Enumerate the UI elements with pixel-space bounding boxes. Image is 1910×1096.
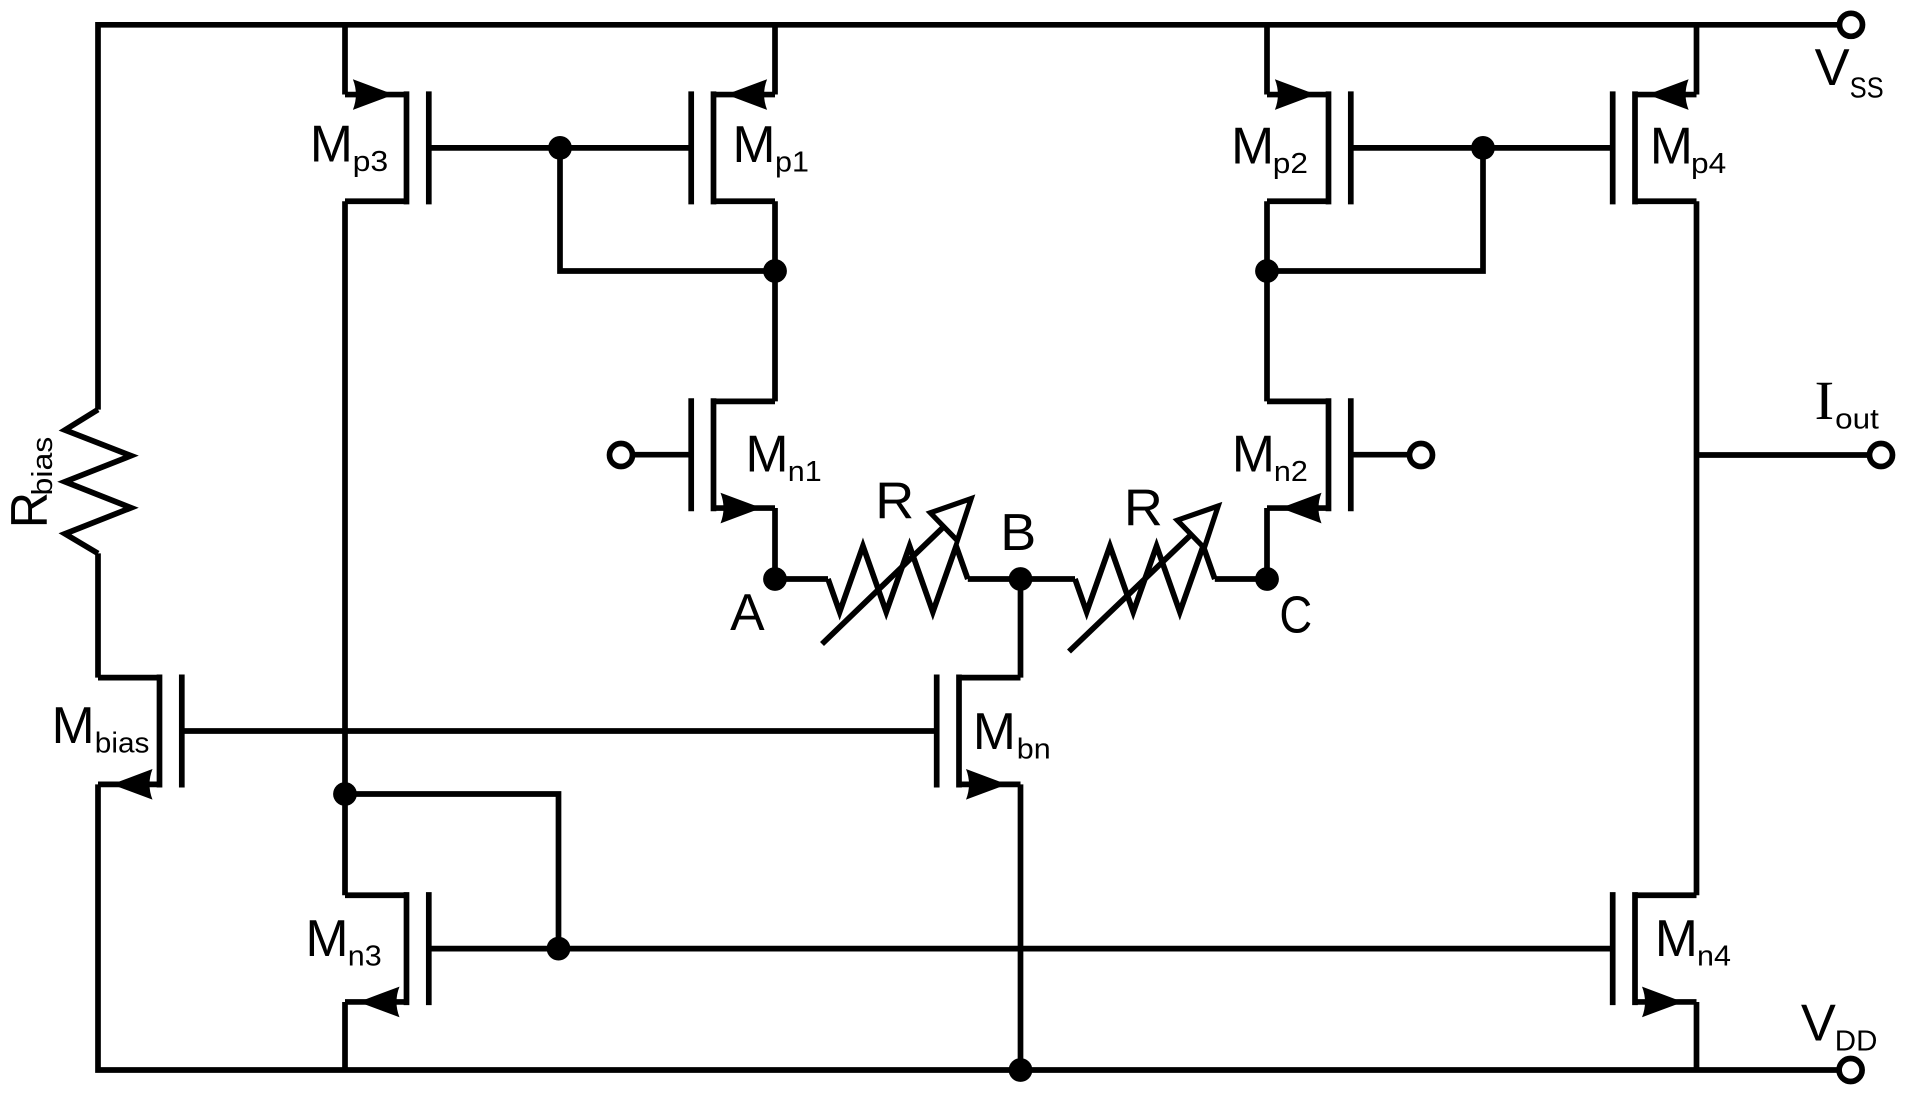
junction Mp2 drain node: [1255, 259, 1279, 283]
wire Mp3-Mp1 gate wire: [429, 145, 692, 151]
wire Mp2-Mp4 gate wire: [1351, 145, 1613, 151]
svg-text:R: R: [0, 492, 58, 528]
svg-text:M: M: [1655, 909, 1698, 967]
wire Mn3-Mn4 gate wire: [429, 946, 1613, 952]
wire Mp3 drain down to Mn3 drain: [342, 201, 348, 895]
wire V_DD bottom rail and Mbias drain wire: [98, 784, 1837, 1070]
svg-text:SS: SS: [1850, 73, 1884, 105]
svg-text:out: out: [1835, 404, 1879, 436]
transistor Mn1 (NMOS): [691, 398, 775, 523]
svg-text:V: V: [1815, 38, 1851, 96]
wire resistor R1 to node B to resistor R2: [968, 576, 1075, 582]
label node C: [1279, 586, 1312, 644]
wire Mbias-Mbn gate wire: [182, 728, 937, 734]
wire Mbn source to bottom rail: [1018, 784, 1024, 1070]
svg-text:M: M: [1231, 117, 1274, 175]
label Mp2: [1231, 117, 1308, 181]
transistor Mn4 (NMOS): [1613, 892, 1697, 1017]
label Mp1: [733, 115, 809, 179]
transistor Mn3 (NMOS): [345, 892, 429, 1017]
resistor R (variable, between B and C) zigzag: [1075, 546, 1215, 612]
svg-text:M: M: [52, 696, 95, 754]
label Mn4: [1655, 909, 1731, 973]
node B junction dot: [1009, 567, 1033, 591]
label R of variable resistor R1: [875, 471, 914, 529]
label V_SS supply: [1815, 38, 1884, 105]
label Mp4: [1650, 117, 1726, 181]
svg-text:M: M: [306, 909, 349, 967]
svg-text:A: A: [730, 583, 765, 641]
wire left wire below Rbias to Mbias source: [95, 553, 101, 677]
label I_out output current: [1815, 371, 1879, 436]
label R of variable resistor R2: [1124, 479, 1163, 537]
wire Mn1 gate lead to terminal: [633, 452, 692, 458]
svg-text:bias: bias: [95, 727, 150, 759]
svg-text:M: M: [1232, 425, 1275, 483]
transistor Mp4 (PMOS): [1613, 79, 1697, 204]
wire Iout output lead: [1697, 452, 1870, 458]
svg-text:V: V: [1801, 993, 1837, 1051]
wire gate node to Mp2 drain (diode connection): [1267, 148, 1483, 271]
svg-text:R: R: [875, 471, 914, 529]
wire Mn3 source to bottom rail: [342, 1002, 348, 1070]
wire Mn2 source down to node C: [1264, 508, 1270, 579]
transistor Mp3 (PMOS): [345, 79, 429, 204]
label node A: [730, 583, 765, 641]
wire Mn4 source to bottom rail: [1694, 1002, 1700, 1070]
terminal I_out: [1870, 444, 1893, 467]
variable resistor R1 adjustment arrow: [822, 499, 971, 644]
terminal Mn2 gate input: [1410, 444, 1433, 467]
transistor Mbn (NMOS): [937, 675, 1021, 800]
wire Mp1 source drop from top rail: [772, 25, 778, 95]
label node B: [1000, 503, 1036, 561]
resistor R (variable, between A and B) zigzag: [828, 546, 968, 612]
svg-text:bias: bias: [27, 437, 59, 496]
junction on Mp3 drain column: [333, 782, 357, 806]
wire Mp2 drain down to Mn2 drain: [1264, 201, 1270, 401]
label Rbias (rotated): [0, 437, 59, 529]
svg-text:M: M: [746, 425, 789, 483]
wire Mp4 drain down to Mn4 drain: [1694, 201, 1700, 895]
svg-text:M: M: [310, 115, 353, 173]
wire gate node to Mp1 drain (diode connection): [560, 148, 775, 271]
wire Mp2 source drop from top rail: [1264, 25, 1270, 95]
junction Mbn source at bottom rail: [1009, 1058, 1033, 1082]
wire Mp3 drain branch to bottom gate net: [345, 794, 559, 949]
transistor Mn2 (NMOS): [1267, 398, 1351, 523]
junction Mp2/Mp4 gate node: [1471, 136, 1495, 160]
svg-text:n1: n1: [788, 456, 822, 488]
terminal Mn1 gate input: [610, 444, 633, 467]
svg-text:n2: n2: [1274, 456, 1308, 488]
label Mn3: [306, 909, 382, 973]
svg-text:B: B: [1000, 503, 1036, 561]
variable resistor R2 adjustment arrow: [1069, 506, 1218, 652]
label Mn1: [746, 425, 822, 489]
resistor Rbias zigzag: [65, 410, 131, 554]
label Mbias: [52, 696, 150, 760]
svg-text:M: M: [973, 702, 1016, 760]
transistor Mbias (NMOS): [98, 675, 182, 800]
svg-text:n3: n3: [348, 941, 382, 973]
label Mbn: [973, 702, 1051, 766]
transistor Mp1 (PMOS): [691, 79, 775, 204]
label Mn2: [1232, 425, 1308, 489]
wire V_SS top rail and left supply wire: [98, 25, 1838, 410]
wire node A to resistor R1: [775, 576, 828, 582]
svg-text:DD: DD: [1835, 1025, 1878, 1057]
junction Mp1 drain node: [763, 259, 787, 283]
svg-text:p1: p1: [775, 147, 809, 179]
node C junction dot: [1255, 567, 1279, 591]
junction Mp3/Mp1 gate node: [548, 136, 572, 160]
svg-text:I: I: [1815, 371, 1835, 432]
label V_DD supply: [1801, 993, 1878, 1057]
terminal V_DD: [1839, 1059, 1862, 1082]
svg-text:R: R: [1124, 479, 1163, 537]
svg-text:M: M: [733, 115, 776, 173]
wire resistor R2 to node C: [1215, 576, 1267, 582]
svg-text:p4: p4: [1691, 148, 1726, 180]
svg-text:C: C: [1279, 586, 1312, 644]
label Mp3: [310, 115, 388, 179]
svg-text:M: M: [1650, 117, 1693, 175]
svg-text:p3: p3: [353, 146, 389, 178]
transistor Mp2 (PMOS): [1267, 79, 1351, 204]
svg-text:p2: p2: [1273, 148, 1308, 180]
wire Mn2 gate lead to terminal: [1351, 452, 1410, 458]
junction on bottom gate net: [547, 937, 571, 961]
svg-text:n4: n4: [1697, 941, 1731, 973]
wire Mn1 source down to node A: [772, 508, 778, 579]
terminal V_SS: [1840, 13, 1863, 36]
node A junction dot: [763, 567, 787, 591]
wire Mp1 drain down to Mn1 drain: [772, 201, 778, 401]
wire Mp3 source drop from top rail: [342, 25, 348, 95]
wire node B down to Mbn drain: [1018, 579, 1024, 678]
wire Mp4 source drop from top rail: [1694, 25, 1700, 95]
svg-text:bn: bn: [1017, 734, 1051, 766]
